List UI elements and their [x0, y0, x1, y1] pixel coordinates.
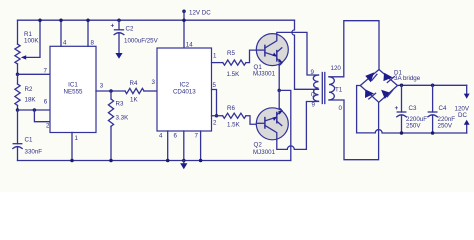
svg-text:3A bridge: 3A bridge — [394, 75, 421, 82]
transistor Q2 MJ3001 — [253, 108, 288, 156]
svg-text:7: 7 — [195, 133, 199, 140]
potentiometer R1 — [15, 18, 42, 74]
svg-text:3: 3 — [152, 79, 156, 86]
wire IC2 pin 6 — [183, 131, 185, 161]
svg-text:NE555: NE555 — [64, 89, 83, 96]
bridge rectifier D1 — [360, 70, 420, 103]
svg-text:3.3K: 3.3K — [116, 115, 130, 122]
svg-text:330nF: 330nF — [25, 149, 43, 156]
transistor Q1 MJ3001 — [253, 34, 288, 78]
resistor R2 — [15, 74, 36, 110]
svg-text:1.5K: 1.5K — [227, 122, 241, 129]
svg-text:R4: R4 — [130, 80, 138, 87]
op-amp IC1 NE555 box — [44, 39, 104, 142]
svg-text:8: 8 — [91, 39, 95, 46]
svg-text:7: 7 — [44, 68, 48, 75]
node emitter junction — [277, 89, 281, 93]
transformer T1 — [311, 65, 343, 112]
svg-text:4: 4 — [159, 133, 163, 140]
wire emitters to ground — [279, 90, 291, 160]
svg-text:R3: R3 — [116, 101, 124, 108]
svg-text:18K: 18K — [25, 97, 37, 104]
svg-text:C3: C3 — [409, 105, 417, 112]
node 12V terminal — [182, 10, 211, 49]
svg-text:120: 120 — [331, 65, 342, 72]
svg-text:+: + — [395, 105, 399, 112]
wire IC1 pin 4 — [60, 20, 62, 46]
wire IC1 pin 3 — [96, 90, 125, 92]
svg-text:C1: C1 — [25, 137, 33, 144]
ground below C2 — [115, 53, 122, 59]
svg-text:DC: DC — [458, 112, 467, 119]
wire bottom ground rail — [18, 160, 291, 162]
wire IC2 pin 2 to R6 — [212, 115, 223, 117]
wire IC2 pin 7 — [200, 131, 202, 161]
wire bridge right vertex DC+ rail — [398, 84, 467, 86]
node output terminal 120V DC — [455, 85, 470, 133]
node R3 tap — [109, 89, 113, 93]
svg-text:CD4013: CD4013 — [173, 89, 196, 96]
svg-text:4: 4 — [63, 39, 67, 46]
svg-text:IC1: IC1 — [68, 82, 78, 89]
svg-text:3: 3 — [100, 83, 104, 90]
svg-text:2: 2 — [213, 120, 217, 127]
diode D1a top-left — [365, 72, 374, 82]
capacitor C3 — [395, 84, 428, 135]
node pin7 junction — [16, 73, 20, 77]
svg-text:IC2: IC2 — [179, 82, 189, 89]
wire R6 to Q2 base — [246, 116, 257, 125]
resistor R5 — [223, 50, 246, 78]
wire DC- rail with hop — [357, 130, 467, 133]
svg-text:1.5K: 1.5K — [227, 71, 241, 78]
wire top supply rail — [18, 19, 295, 21]
wire bridge left vertex DC- down — [357, 86, 361, 133]
node pin6 junction — [16, 108, 20, 112]
svg-text:+: + — [111, 23, 115, 30]
svg-text:0: 0 — [311, 92, 315, 99]
ground below IC2 — [180, 161, 187, 170]
svg-text:1K: 1K — [130, 97, 138, 104]
op-amp IC2 CD4013 box — [152, 41, 218, 139]
svg-text:9: 9 — [312, 102, 316, 109]
svg-text:1: 1 — [213, 53, 217, 60]
wire IC1 pin 1 — [71, 133, 73, 161]
svg-text:2: 2 — [46, 123, 50, 130]
svg-text:9: 9 — [311, 69, 315, 76]
resistor R4 — [125, 80, 157, 104]
wire IC2 pin 5 — [212, 90, 217, 116]
svg-text:14: 14 — [186, 41, 193, 48]
svg-text:T1: T1 — [335, 87, 343, 94]
svg-text:C4: C4 — [439, 105, 447, 112]
capacitor C4 — [428, 84, 455, 135]
wire 12V feed to center tap — [292, 20, 319, 89]
wire secondary 120 tap to bridge top — [329, 21, 379, 77]
wire R5 to Q1 base — [246, 50, 257, 63]
svg-text:5: 5 — [213, 82, 217, 89]
wire Q2 collector to transformer bottom tap — [277, 102, 319, 150]
svg-text:1: 1 — [75, 135, 79, 142]
svg-text:MJ3001: MJ3001 — [253, 149, 276, 156]
svg-text:250V: 250V — [406, 122, 421, 129]
resistor R6 — [223, 105, 246, 129]
resistor R3 — [108, 91, 129, 162]
svg-text:MJ3001: MJ3001 — [253, 71, 276, 78]
svg-text:100K: 100K — [24, 38, 39, 45]
diode D1c bottom-left — [365, 89, 374, 98]
svg-text:6: 6 — [174, 133, 178, 140]
svg-text:250V: 250V — [438, 122, 453, 129]
svg-text:R5: R5 — [227, 50, 235, 57]
wire IC1 pin 7 — [18, 73, 51, 75]
capacitor C2 — [111, 18, 159, 53]
svg-text:0: 0 — [339, 105, 343, 112]
wire secondary 0 tap to bridge bottom — [329, 100, 379, 160]
svg-text:C2: C2 — [126, 26, 134, 33]
svg-text:1000uF/25V: 1000uF/25V — [124, 38, 159, 45]
wire IC1 pin 6 — [18, 109, 51, 111]
svg-text:12V DC: 12V DC — [189, 10, 211, 17]
wire Q2 emitter up to junction — [278, 90, 280, 108]
wire Q1 collector to transformer top tap — [277, 32, 319, 75]
wire Q1 emitter down — [278, 65, 280, 90]
wire IC1 pin 8 — [87, 20, 89, 46]
svg-text:R6: R6 — [227, 105, 235, 112]
capacitor C1 — [13, 110, 42, 161]
diode D1b top-right — [383, 73, 392, 81]
svg-text:Q2: Q2 — [254, 142, 263, 149]
node pin2 branch — [33, 108, 37, 112]
diode D1d bottom-right — [381, 90, 390, 99]
wire IC2 pin 1 to R5 — [212, 62, 223, 64]
wire IC2 pin 4 — [167, 131, 169, 161]
wire IC1 pin 2 — [34, 110, 50, 122]
svg-text:R2: R2 — [25, 86, 33, 93]
svg-text:6: 6 — [44, 99, 48, 106]
